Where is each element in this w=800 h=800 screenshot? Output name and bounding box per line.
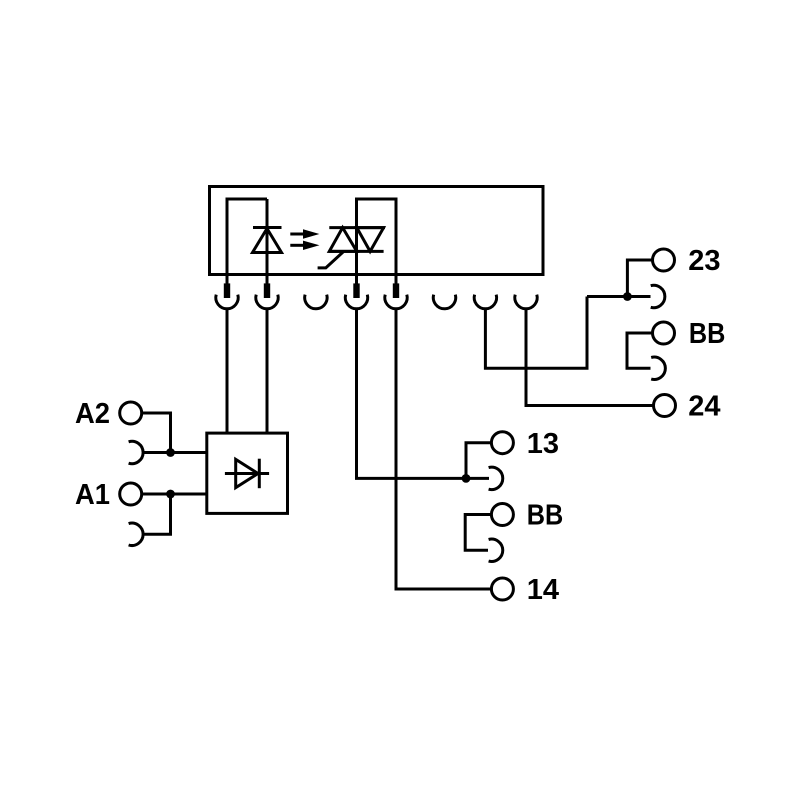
wire socket2 to rectifier box [266, 309, 269, 433]
socket 7 [474, 295, 496, 309]
LED D1 cathode bar [253, 226, 282, 229]
wire terminal 23 to node [627, 260, 652, 297]
socket 8 [515, 295, 537, 309]
wire socket8 down to terminal 24 [526, 309, 654, 406]
plug pin socket1 [226, 275, 229, 285]
junction node 23 [623, 292, 632, 301]
light arrow 1 [290, 229, 319, 238]
svg-text:13: 13 [527, 428, 559, 460]
wire A1 to rectifier box [142, 493, 208, 496]
socket 5 [385, 295, 407, 309]
plug pin socket2 [266, 275, 269, 285]
terminal A1 circle [120, 483, 142, 505]
svg-text:23: 23 [688, 245, 720, 277]
wire node 23 to bridge socket [587, 295, 651, 298]
diode D2 cathode bar [258, 459, 261, 489]
triac Q1 top line [329, 226, 385, 229]
socket 2 [256, 295, 278, 309]
terminal BB right circle [653, 322, 675, 344]
diode D2 line [225, 472, 269, 475]
bridge socket under A2 [129, 441, 144, 463]
socket 3 [305, 295, 327, 309]
bridge socket under 23 [651, 285, 665, 307]
plug pin socket4 [355, 275, 358, 285]
plug pin socket5 [395, 275, 398, 285]
terminal BB middle circle [491, 504, 513, 526]
wire socket4 down to node 13 [357, 309, 490, 479]
bridge socket under BB right [651, 357, 665, 379]
LED D1 vertical wire [266, 199, 269, 275]
rectifier box D2 [207, 433, 288, 513]
svg-text:24: 24 [688, 391, 720, 423]
wire terminal 13 to node [466, 443, 491, 479]
LED D1 triangle [253, 229, 282, 253]
junction node 13 [462, 474, 471, 483]
module box U1 (relay module outline) [210, 187, 544, 275]
bridge socket under A1 [129, 523, 144, 545]
svg-text:A1: A1 [75, 479, 110, 511]
socket 6 [433, 295, 455, 309]
wire A1 socket up to node [143, 494, 171, 534]
diode D2 triangle [236, 459, 258, 487]
triac Q1 down triangle [357, 228, 384, 252]
wire socket5 down to terminal 14 [396, 309, 492, 589]
bridge socket under BB middle [489, 539, 503, 561]
triac Q1 gate [318, 251, 344, 268]
junction node A2 [166, 448, 175, 457]
terminal A2 circle [120, 402, 142, 424]
junction node A1 [166, 490, 175, 499]
terminal 24 circle [654, 395, 676, 417]
light arrow 2 [290, 241, 319, 250]
svg-text:14: 14 [527, 574, 559, 606]
triac Q1 bottom line [329, 250, 384, 253]
wire A2 to node [142, 413, 171, 453]
terminal 23 circle [653, 249, 675, 271]
wire A2 socket to rectifier box [143, 451, 208, 454]
bridge socket under 13 [489, 467, 503, 489]
svg-text:A2: A2 [75, 398, 110, 430]
wire output loop (socket4 up, over to socket5) [357, 199, 397, 275]
wire socket7 down right and up to node 23 [485, 297, 587, 369]
triac Q1 up triangle [329, 228, 357, 252]
svg-text:BB: BB [689, 318, 726, 350]
wire BB right bracket [627, 333, 653, 368]
socket 4 [345, 295, 367, 309]
svg-text:BB: BB [527, 500, 564, 532]
wire socket1 to rectifier box [226, 309, 229, 433]
wire input loop (socket1 up, over to LED anode) [227, 199, 267, 275]
socket 1 [216, 295, 238, 309]
terminal 14 circle [491, 578, 513, 600]
terminal 13 circle [491, 432, 513, 454]
wire BB middle bracket [465, 515, 491, 551]
